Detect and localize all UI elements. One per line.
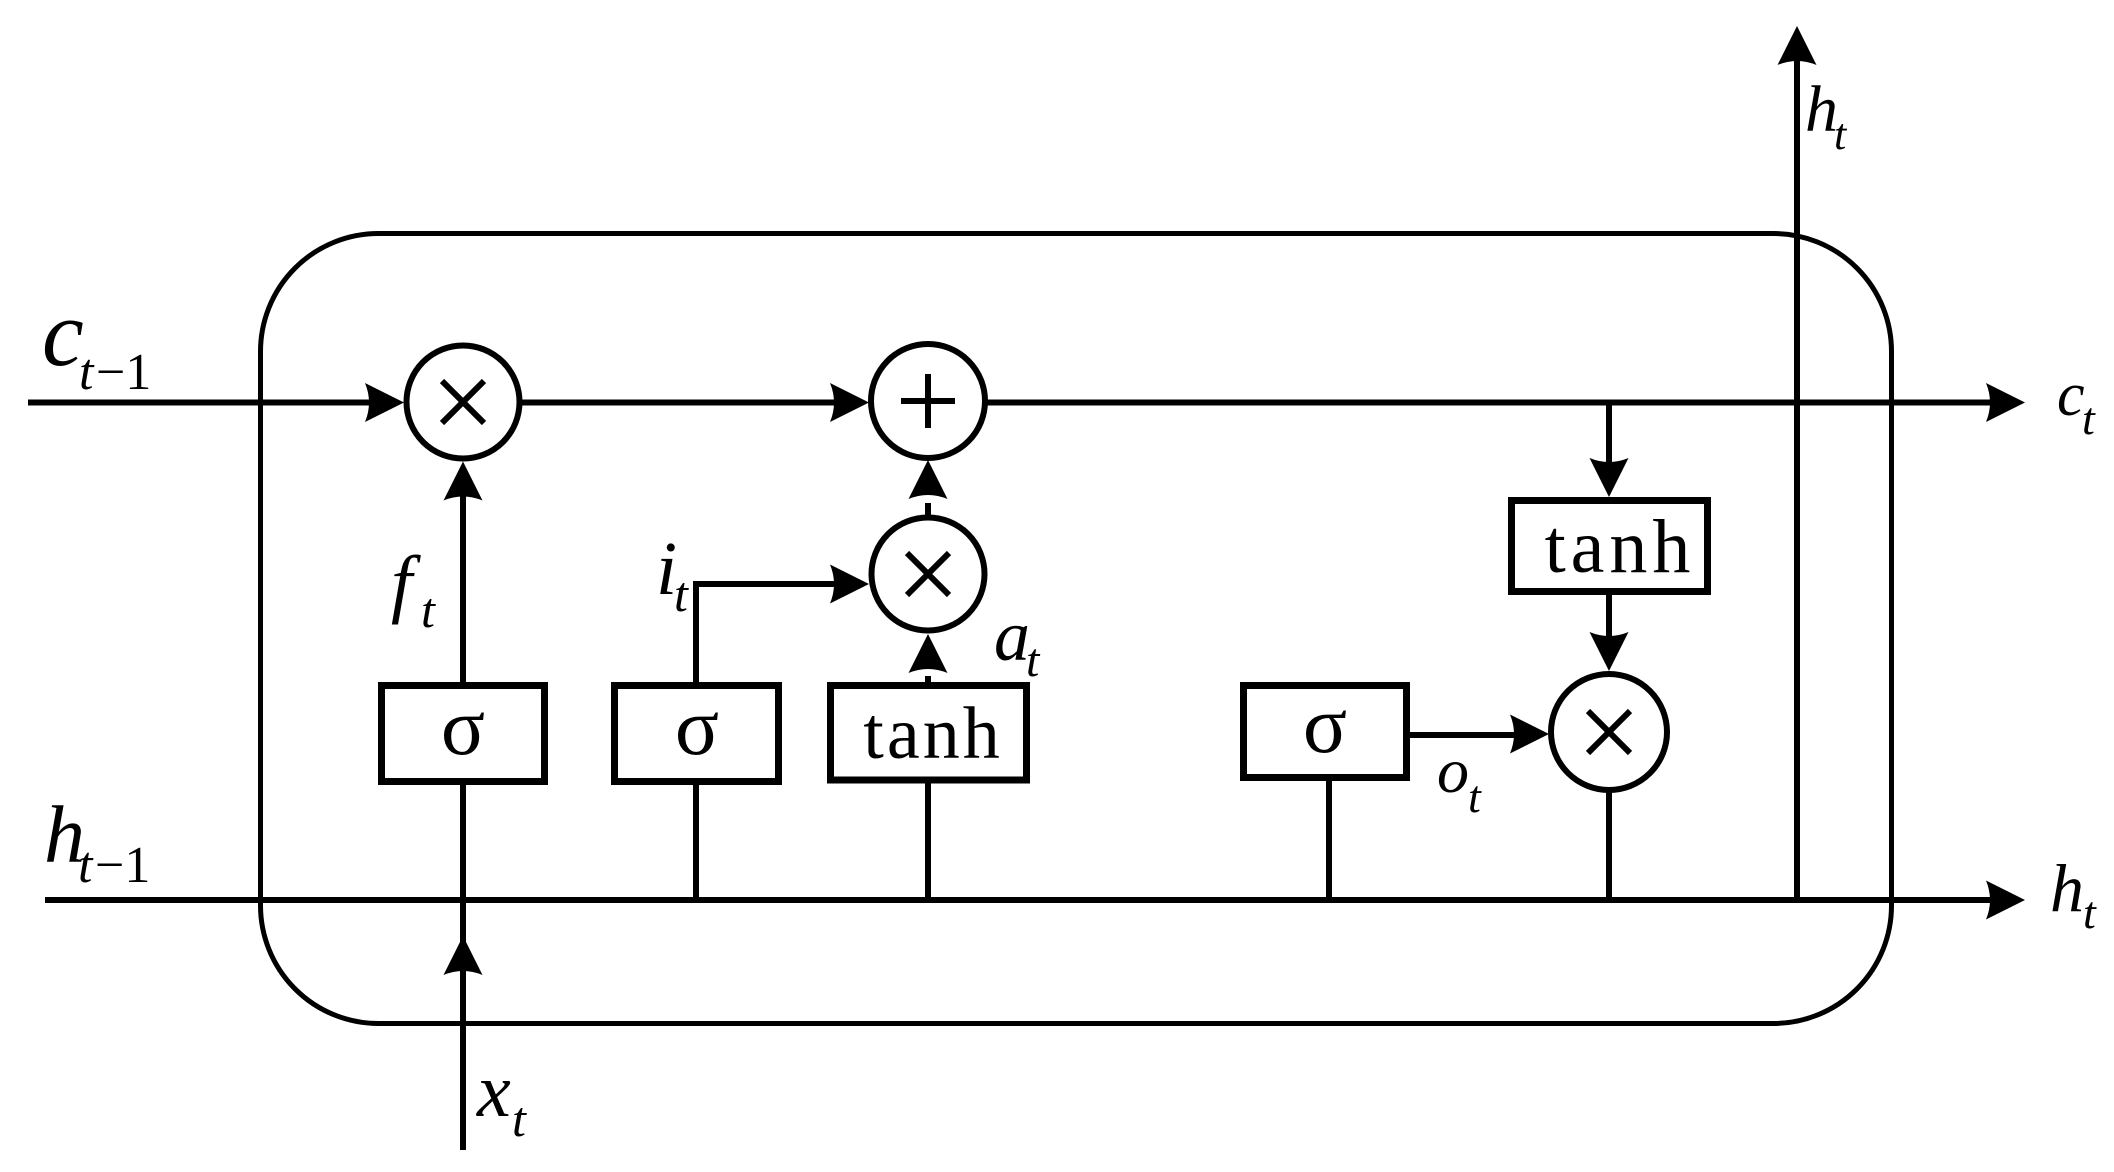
label h_{t-1} (44, 789, 150, 894)
wire tanh1 down to h line (925, 780, 931, 900)
wire i_t from sigma2 up then right into X2 (696, 565, 869, 687)
svg-text:t: t (79, 344, 95, 401)
svg-text:σ: σ (441, 681, 485, 772)
wire X1 to adder (520, 383, 869, 422)
wire c line down into tanh2 (1590, 402, 1629, 497)
svg-text:t: t (1834, 110, 1848, 159)
wire adder to c_t output (985, 383, 2025, 422)
svg-text:−1: −1 (95, 837, 150, 894)
svg-text:σ: σ (675, 681, 719, 772)
wire X3 down to h line (1606, 790, 1612, 900)
wire sigma3 down to h line (1326, 777, 1332, 900)
wire h(t-1) input to h_t output line (45, 881, 2025, 920)
label f_t (391, 541, 436, 638)
label i_t (656, 527, 689, 622)
svg-text:t: t (1468, 771, 1482, 822)
svg-text:tanh: tanh (863, 693, 1002, 775)
wire c(t-1) input segment into X1 (28, 383, 404, 422)
multiplier node X2 (input product) (872, 518, 985, 631)
LSTM cell boundary rounded rectangle (261, 234, 1892, 1024)
tanh box 2 (cell state squash) (1512, 501, 1708, 592)
svg-text:t: t (2083, 887, 2097, 938)
label h_t output top (1805, 73, 1848, 159)
adder node plus (871, 344, 985, 458)
label o_t (1437, 735, 1482, 822)
svg-text:t: t (421, 582, 436, 638)
svg-text:c: c (42, 282, 84, 386)
wire sigma3 right into X3 with o_t (1410, 715, 1549, 754)
svg-text:o: o (1437, 735, 1469, 806)
label x_t (476, 1049, 527, 1147)
wire sigma2 down to h line (693, 781, 699, 900)
wire tanh1 up into X2 (909, 634, 948, 686)
label c_t output (2057, 361, 2096, 444)
wire f_t arrow from sigma1 up to X1 (444, 462, 483, 687)
label h_t output right (2050, 850, 2097, 938)
svg-text:−1: −1 (96, 344, 151, 401)
wire x_t input vertical with up arrow (444, 781, 483, 1150)
wire X2 up into adder (909, 460, 948, 515)
svg-text:σ: σ (1303, 679, 1347, 770)
svg-text:c: c (2057, 361, 2085, 429)
multiplier node X1 (forget product) (407, 346, 520, 459)
label a_t (994, 596, 1041, 687)
svg-text:tanh: tanh (1545, 505, 1696, 589)
svg-text:x: x (476, 1049, 511, 1133)
multiplier node X3 (output product) (1551, 674, 1667, 790)
label c_{t-1} (42, 282, 151, 401)
svg-text:t: t (512, 1091, 527, 1147)
svg-text:t: t (78, 837, 94, 894)
wire tanh2 down into X3 (1590, 590, 1629, 671)
svg-text:t: t (2082, 393, 2096, 444)
sigma box 2 (input gate) (615, 681, 779, 782)
svg-text:h: h (2050, 850, 2084, 926)
sigma box 3 (output gate) (1244, 679, 1407, 778)
svg-text:a: a (994, 596, 1030, 676)
wire h_t output vertical up (1778, 26, 1817, 900)
sigma box 1 (forget gate) (382, 681, 545, 782)
svg-text:t: t (674, 566, 689, 622)
tanh box 1 (candidate activation) (831, 686, 1027, 781)
svg-text:t: t (1026, 634, 1041, 687)
